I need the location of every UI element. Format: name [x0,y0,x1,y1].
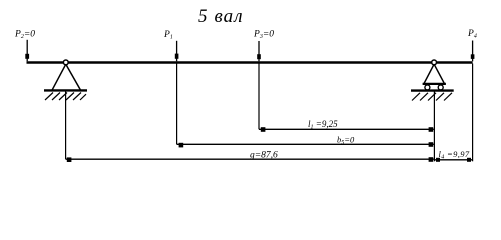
dimension l4 left tick [436,158,440,162]
force P1 arrowhead [175,54,179,59]
force P4 arrow line [472,41,474,62]
force P4 arrowhead [471,54,475,59]
dimension l4 right tick [467,158,471,162]
svg-text:b5=0: b5=0 [337,135,355,147]
extension line from P3 down to dimension l1 [258,64,260,130]
force P2=0 arrow line [26,40,28,62]
svg-text:5 вал: 5 вал [198,6,244,27]
support B centerline (extension line) [433,92,435,162]
force P2=0 arrowhead [25,54,29,59]
extension line from P1 down to dimension b [176,64,178,145]
support B roller 2 [438,85,443,90]
right roller support B [411,60,454,101]
dimension b left tick [179,143,184,148]
force P3=0 arrowhead [257,54,261,59]
beam (shaft) [27,61,473,63]
support A ground line [44,89,87,91]
support A pin circle [63,60,68,65]
svg-text:P3=0: P3=0 [253,30,274,41]
dimension l1=9,25 line [259,128,434,130]
support B base line [423,83,446,85]
support B roller 1 [425,85,430,90]
support B triangle legs [424,64,434,83]
support B hatching [412,93,420,101]
support A triangle legs [52,64,66,90]
support B pin circle [432,60,437,65]
force P3=0 arrow line [258,41,260,61]
left pin support A [44,60,87,100]
dimension l4=9,97 line [434,159,472,161]
dimension g=87,6 line [66,158,434,160]
dimension b right tick [429,142,434,147]
support A hatching [45,93,53,101]
dimension g right tick [429,157,434,162]
support A centerline (extension line) [65,92,67,160]
dimension g left tick [67,157,72,162]
svg-text:g=87,6: g=87,6 [250,151,278,161]
dimension l1 left tick [261,127,266,132]
extension line from P4 down to dimension l4 [472,64,474,162]
dimension l1 right tick [429,127,434,132]
dimension b=0 line [177,143,434,145]
force P1 arrow line [176,41,178,62]
support B ground line [411,89,454,91]
svg-text:P2=0: P2=0 [14,30,35,41]
